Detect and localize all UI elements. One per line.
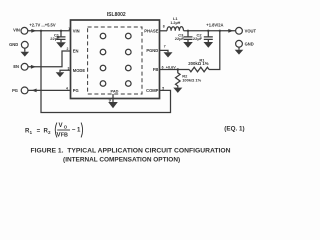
svg-text:2: 2 bbox=[67, 47, 69, 51]
wire MODE stub bbox=[60, 70, 71, 72]
svg-text:FB: FB bbox=[61, 133, 68, 139]
wire PAD pin bbox=[112, 94, 114, 102]
pad via row4 col1 bbox=[100, 81, 106, 87]
svg-text:4: 4 bbox=[66, 87, 68, 91]
svg-text:VIN: VIN bbox=[13, 28, 20, 33]
wire GND left terminal stem bbox=[24, 48, 26, 52]
thermal pad dashed outline bbox=[88, 27, 142, 94]
junction node FB/R2 bbox=[177, 68, 179, 70]
svg-text:7: 7 bbox=[164, 45, 166, 49]
ground GND right bbox=[235, 50, 244, 55]
pad via row2 col1 bbox=[100, 49, 106, 55]
capacitor C2 bbox=[204, 31, 213, 42]
wire R1 branch from rail bbox=[209, 31, 220, 70]
svg-text:− 1: − 1 bbox=[72, 127, 81, 134]
svg-text:+0.6V: +0.6V bbox=[166, 65, 176, 69]
capacitor C1 bbox=[57, 31, 66, 42]
junction node VIN/loop bbox=[40, 30, 42, 32]
svg-text:=: = bbox=[37, 127, 41, 134]
ground R2 bbox=[173, 88, 182, 93]
svg-text:1: 1 bbox=[68, 27, 70, 31]
svg-text:EN: EN bbox=[13, 64, 19, 69]
svg-text:100kΩ 1%: 100kΩ 1% bbox=[182, 77, 201, 82]
svg-text:GND: GND bbox=[245, 41, 254, 46]
wire PGND stub bbox=[160, 50, 169, 52]
ground C1 bbox=[56, 42, 66, 48]
svg-text:ISL8002: ISL8002 bbox=[107, 12, 126, 18]
svg-text:VOUT: VOUT bbox=[245, 28, 256, 33]
resistor R2 bbox=[176, 70, 181, 88]
svg-text:PG: PG bbox=[12, 88, 18, 93]
terminal GND right bbox=[236, 40, 243, 47]
svg-text:(INTERNAL COMPENSATION OPTION): (INTERNAL COMPENSATION OPTION) bbox=[63, 156, 180, 163]
terminal VOUT bbox=[236, 27, 243, 34]
svg-text:PGND: PGND bbox=[146, 48, 158, 53]
terminal GND left bbox=[21, 41, 28, 48]
svg-text:3: 3 bbox=[68, 66, 70, 70]
svg-text:PAD: PAD bbox=[111, 89, 119, 94]
terminal EN bbox=[21, 63, 28, 70]
arrow EN wire bbox=[31, 65, 36, 69]
terminal VIN bbox=[21, 27, 28, 34]
ground PGND bbox=[164, 52, 173, 57]
inductor L1 bbox=[167, 27, 184, 31]
wire EN bbox=[28, 51, 70, 67]
svg-text:+1.8V/2A: +1.8V/2A bbox=[206, 23, 223, 28]
svg-text:1.2µH: 1.2µH bbox=[170, 21, 180, 25]
junction node VIN/C1 bbox=[60, 30, 62, 32]
IC U1 ISL8002 body bbox=[71, 20, 160, 99]
junction node rail/R1 bbox=[219, 30, 221, 32]
pad via row3 col2 bbox=[126, 65, 132, 71]
svg-text:+2.7V ...+5.5V: +2.7V ...+5.5V bbox=[29, 23, 55, 28]
pad via row3 col1 bbox=[100, 65, 106, 71]
svg-text:22µF: 22µF bbox=[193, 36, 203, 41]
svg-text:(EQ. 1): (EQ. 1) bbox=[224, 125, 244, 132]
resistor R1 bbox=[189, 67, 209, 72]
svg-text:6: 6 bbox=[162, 66, 164, 70]
svg-text:COMP: COMP bbox=[146, 88, 159, 93]
svg-text:22µF: 22µF bbox=[50, 36, 60, 41]
ground PAD bbox=[108, 102, 118, 108]
fraction bar bbox=[57, 129, 70, 131]
wire GND right terminal stem bbox=[238, 47, 240, 50]
pad via row2 col2 bbox=[126, 49, 132, 55]
svg-text:200kΩ 1%: 200kΩ 1% bbox=[188, 61, 209, 66]
svg-text:FB: FB bbox=[153, 67, 159, 72]
svg-text:MODE: MODE bbox=[73, 68, 86, 73]
svg-text:PG: PG bbox=[73, 88, 79, 93]
pad via row1 col1 bbox=[100, 33, 106, 39]
svg-text:PHASE: PHASE bbox=[144, 28, 158, 33]
capacitor C3 bbox=[184, 31, 193, 42]
wire output rail bbox=[184, 30, 236, 32]
ground MODE bbox=[56, 72, 65, 77]
junction node rail/C2 bbox=[207, 30, 209, 32]
wire FB bbox=[160, 69, 190, 71]
figure caption bbox=[30, 148, 230, 164]
svg-text:5: 5 bbox=[162, 87, 164, 91]
pad via row4 col2 bbox=[126, 81, 132, 87]
svg-text:EN: EN bbox=[73, 49, 79, 54]
svg-text:22µF: 22µF bbox=[175, 36, 185, 41]
arrow VIN wire bbox=[31, 29, 36, 33]
ground C3 bbox=[183, 42, 193, 48]
wire PHASE lead bbox=[160, 30, 168, 32]
pad via row1 col2 bbox=[126, 33, 132, 39]
arrow VOUT rail bbox=[228, 29, 233, 33]
wire PG bbox=[28, 89, 70, 91]
ground C2 bbox=[204, 42, 214, 48]
arrow PG wire bbox=[32, 89, 37, 93]
terminal PG bbox=[21, 87, 28, 94]
svg-text:GND: GND bbox=[9, 42, 18, 47]
svg-text:8: 8 bbox=[163, 24, 165, 28]
wire VIN rail bbox=[28, 30, 71, 32]
wire COMP-to-VIN loop bbox=[41, 31, 171, 113]
right paren bbox=[81, 123, 83, 138]
equation EQ.1 bbox=[25, 122, 245, 139]
svg-text:FIGURE 1. TYPICAL APPLICATION: FIGURE 1. TYPICAL APPLICATION CIRCUIT CO… bbox=[30, 148, 230, 155]
left paren bbox=[55, 123, 57, 138]
ground GND left bbox=[21, 52, 30, 57]
svg-text:VIN: VIN bbox=[73, 28, 80, 33]
junction node rail/C3 bbox=[187, 30, 189, 32]
